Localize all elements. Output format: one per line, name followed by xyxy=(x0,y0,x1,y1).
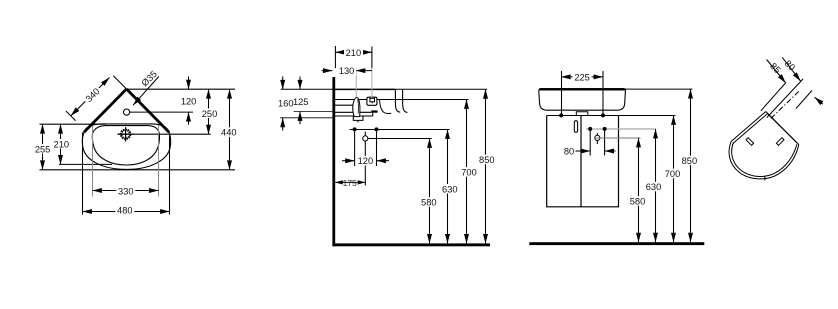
svg-text:330: 330 xyxy=(118,186,134,196)
wall right outer xyxy=(766,112,799,145)
inner bowl xyxy=(92,126,159,165)
mid line 250 bottom / drain arm xyxy=(118,133,211,135)
gray ext vertical 210 xyxy=(371,68,373,98)
tap hole line xyxy=(130,111,193,113)
wall right inner xyxy=(768,114,797,143)
dim 210 (side) xyxy=(336,51,372,53)
svg-text:630: 630 xyxy=(442,184,458,194)
svg-text:580: 580 xyxy=(630,197,646,207)
neck between basin and furniture xyxy=(576,112,588,116)
floor thick (side) xyxy=(332,243,490,246)
front lip outer J xyxy=(403,90,408,113)
dim 700 (front) xyxy=(673,116,675,243)
ext line front xyxy=(40,169,236,171)
svg-text:130: 130 xyxy=(339,66,355,76)
leader 85 xyxy=(767,60,786,84)
gray ext vertical 130 xyxy=(355,73,357,97)
ext line top (255/210) xyxy=(40,123,107,125)
wall left outer xyxy=(731,112,766,142)
tap hole circle xyxy=(124,109,130,115)
svg-text:120: 120 xyxy=(181,96,197,106)
rim top ext line xyxy=(281,88,487,90)
bolts pair1 (front) xyxy=(559,113,563,117)
dark deck segment xyxy=(371,110,377,112)
dim 440 xyxy=(229,89,231,170)
wall left inner xyxy=(733,114,768,144)
dim 340 xyxy=(66,76,126,121)
siphon circle (front) xyxy=(596,133,598,144)
svg-text:175: 175 xyxy=(343,178,357,188)
dim 160 xyxy=(280,77,332,131)
ext line 210 bottom xyxy=(59,163,112,165)
furniture top / 700 line xyxy=(547,115,676,117)
basin profile front lip xyxy=(335,88,396,90)
svg-text:210: 210 xyxy=(54,139,70,149)
svg-text:210: 210 xyxy=(346,48,362,58)
bolt line xyxy=(350,129,450,131)
dim 175 xyxy=(335,181,365,183)
svg-text:440: 440 xyxy=(221,128,237,138)
dim 850 (front) xyxy=(690,89,692,242)
svg-text:580: 580 xyxy=(421,198,437,208)
dim 250 xyxy=(208,89,210,134)
basin body (front) xyxy=(539,89,626,111)
dim 125 xyxy=(294,77,333,125)
wall left thick xyxy=(84,89,127,132)
ext verticals 225 xyxy=(561,71,563,116)
ext line B xyxy=(767,79,803,118)
ext line D xyxy=(796,91,812,109)
vertical ext 480 left xyxy=(82,133,84,215)
rim top ext line (front) xyxy=(625,88,693,90)
svg-text:480: 480 xyxy=(117,206,133,216)
svg-text:250: 250 xyxy=(202,109,218,119)
svg-text:850: 850 xyxy=(682,156,698,166)
leader 80 xyxy=(782,57,800,81)
svg-text:225: 225 xyxy=(574,72,590,82)
arc bottom tick xyxy=(764,176,766,181)
shelf line xyxy=(335,105,372,112)
drain stub xyxy=(353,112,372,122)
siphon vertical xyxy=(364,132,366,186)
dim 580 (side) xyxy=(429,139,431,244)
floor thick (front) xyxy=(529,242,704,245)
tab right xyxy=(776,138,784,146)
siphon line xyxy=(365,138,431,140)
ext verticals 80 xyxy=(589,129,591,156)
overflow finger xyxy=(353,98,360,117)
apex horizontal line xyxy=(127,88,236,90)
dim 330 xyxy=(93,190,159,192)
furniture box xyxy=(547,115,619,206)
outer rim xyxy=(82,124,170,169)
svg-text:700: 700 xyxy=(461,168,477,178)
drain dashed circle xyxy=(121,130,130,139)
furniture split xyxy=(580,115,582,206)
svg-text:80: 80 xyxy=(564,147,574,157)
front lip inner J xyxy=(395,90,400,113)
svg-text:255: 255 xyxy=(35,144,51,154)
svg-text:700: 700 xyxy=(665,169,681,179)
ext line A xyxy=(761,83,786,111)
dim 120 (side, bolts) xyxy=(342,131,389,166)
dim 630 (side) xyxy=(447,130,449,244)
dim 120 (view1) xyxy=(188,77,190,125)
tap block inner xyxy=(370,98,375,103)
dim 700 (side) xyxy=(466,100,468,244)
siphon circle (side) xyxy=(363,136,368,141)
700 top line xyxy=(335,99,469,101)
dim 580 (front) xyxy=(638,138,640,242)
overflow finger inner edge xyxy=(357,99,360,113)
vertical ext 480 right xyxy=(169,133,171,215)
tap block xyxy=(367,97,377,105)
svg-text:160: 160 xyxy=(278,99,294,109)
dim 255 xyxy=(42,124,44,170)
dim leader Ø35 xyxy=(133,77,159,106)
vertical ext 330 right (gray) xyxy=(158,126,160,197)
dim 210 (view1) xyxy=(60,124,62,164)
dim 630 (front) xyxy=(655,129,657,242)
dim 225 xyxy=(561,76,603,78)
wall right thick xyxy=(127,89,170,132)
dim 480 xyxy=(83,211,170,213)
gray line 630 (front) xyxy=(586,128,656,130)
svg-text:630: 630 xyxy=(646,182,662,192)
centerline dash-dot xyxy=(771,91,800,119)
bolts pair2 (front) xyxy=(588,127,592,131)
svg-text:125: 125 xyxy=(293,97,309,107)
drain cross xyxy=(118,133,134,135)
tab left xyxy=(746,138,754,146)
basin top edge thick xyxy=(540,88,625,90)
vertical ext 330 left (gray) xyxy=(92,126,94,197)
dim 130 xyxy=(322,68,372,74)
handle slot xyxy=(574,121,577,133)
line 580 top (front) xyxy=(594,137,641,139)
svg-text:120: 120 xyxy=(358,156,374,166)
leader 3 opposite arrow xyxy=(815,97,823,104)
wall thick (side) xyxy=(332,77,335,246)
front arc inner xyxy=(732,142,797,176)
dim 80 xyxy=(576,150,616,152)
basin inner bowl curve xyxy=(380,100,392,114)
svg-text:850: 850 xyxy=(479,155,495,165)
front arc outer xyxy=(729,141,799,179)
bolt dots (side) xyxy=(353,127,357,131)
dim 850 (side) xyxy=(485,89,487,243)
basin bottom line xyxy=(335,115,373,117)
